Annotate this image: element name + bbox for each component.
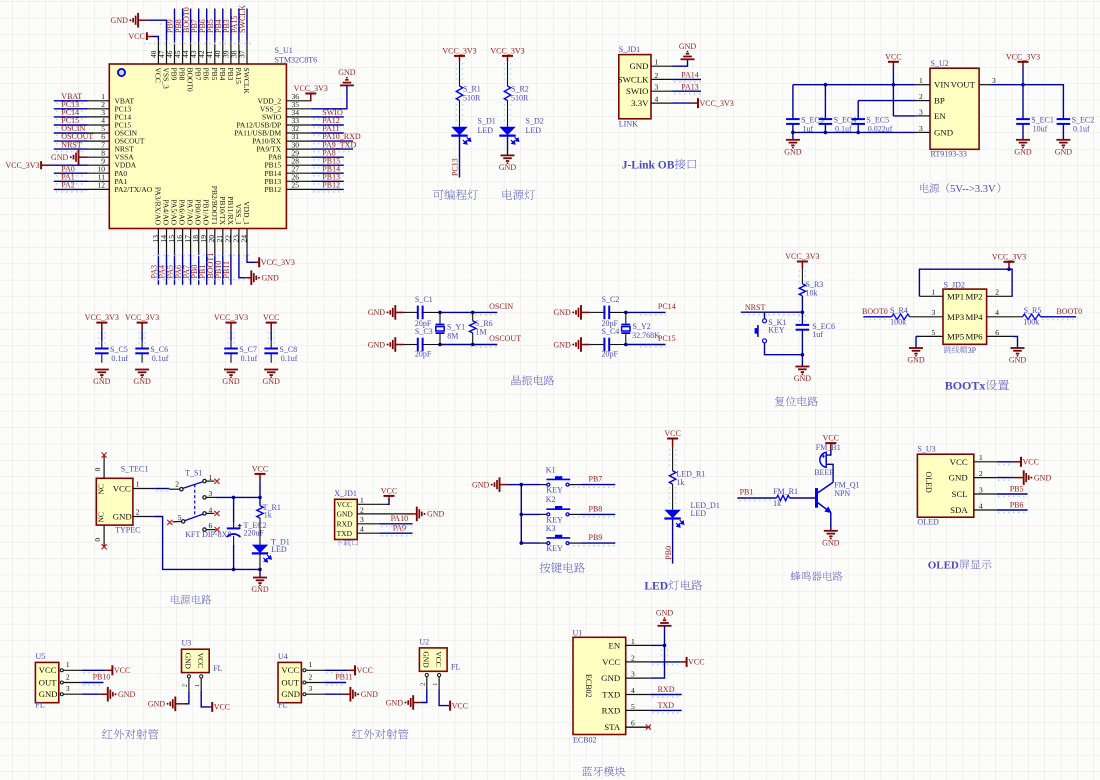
power VCC_3V3 above S_R2 (502, 55, 513, 57)
mcu pin 37 (246, 41, 248, 64)
svg-text:NC: NC (97, 512, 106, 522)
button K1 KEY (540, 484, 546, 486)
label 跳线帽3P (944, 346, 951, 353)
ir emitter U3 body (182, 649, 210, 672)
wire emitter to gnd (830, 513, 832, 531)
svg-text:GND: GND (133, 377, 151, 386)
svg-text:S_R4: S_R4 (890, 306, 908, 315)
section title 电源电路 (171, 595, 180, 604)
svg-text:VCC: VCC (381, 486, 397, 495)
svg-text:PA15: PA15 (234, 68, 243, 85)
wire S_D2 to gnd (507, 136, 509, 155)
section title 晶振电路 (512, 375, 521, 385)
svg-text:0.1uf: 0.1uf (1073, 125, 1090, 134)
svg-text:MP6: MP6 (965, 331, 983, 341)
power VCC above T_R1 (255, 473, 266, 475)
svg-text:S_JD1: S_JD1 (619, 45, 640, 54)
wire U2 gnd pin (421, 690, 427, 703)
net label PA12 (312, 124, 344, 126)
svg-text:3: 3 (309, 684, 313, 693)
svg-text:PB4: PB4 (218, 68, 227, 81)
mcu pin 22 (230, 229, 232, 254)
LED T_D1 (252, 545, 268, 553)
resistor S_R5 100k (1023, 314, 1041, 320)
svg-text:510R: 510R (511, 94, 529, 103)
mcu pin 18 (198, 229, 200, 254)
svg-text:PB11/RX: PB11/RX (226, 196, 235, 225)
wire K2 to PB8 (581, 513, 616, 515)
svg-text:0: 0 (93, 467, 102, 471)
svg-text:2: 2 (420, 683, 427, 686)
svg-text:PA14: PA14 (681, 71, 699, 80)
mcu pin 13 (157, 229, 159, 254)
svg-text:FL: FL (35, 700, 44, 709)
svg-text:OLED: OLED (928, 560, 959, 572)
svg-text:S_D1: S_D1 (478, 117, 496, 126)
resistor S_R4 100k (892, 314, 910, 320)
wire key bus vertical (520, 485, 522, 543)
svg-text:NRST: NRST (61, 140, 82, 149)
mcu pin 24 (246, 229, 248, 254)
wire S_R1 to S_D1 (459, 101, 461, 127)
mcu pin 44 (190, 41, 192, 64)
svg-text:PA2/TX/AO: PA2/TX/AO (115, 185, 153, 194)
svg-text:SWIO: SWIO (626, 86, 648, 96)
power VCC at U2 (449, 701, 451, 711)
svg-text:VCC: VCC (252, 464, 268, 473)
svg-text:100k: 100k (890, 318, 906, 327)
net label PA14 (672, 78, 701, 80)
svg-text:TXD: TXD (337, 529, 353, 538)
svg-text:2: 2 (175, 480, 179, 489)
power VCC at U4 pin1 (354, 665, 356, 675)
svg-text:3: 3 (631, 670, 635, 679)
svg-text:VCC: VCC (114, 666, 130, 675)
wire S_C5 top (101, 330, 103, 341)
wire S_C6 top (141, 330, 143, 341)
capacitor S_C4 20pF (603, 338, 605, 352)
svg-text:PB12: PB12 (265, 185, 282, 194)
net label PB1 (737, 497, 776, 499)
svg-text:100k: 100k (1023, 318, 1039, 327)
wire U3 gnd pin (183, 691, 189, 704)
svg-text:3: 3 (919, 124, 923, 133)
svg-text:PB8: PB8 (589, 504, 603, 513)
svg-text:ECB02: ECB02 (573, 735, 597, 744)
wire cap EC4 column (824, 85, 826, 119)
net label BOOT0 (190, 9, 192, 41)
wire R4 to pin3 (910, 316, 920, 318)
svg-text:VCC: VCC (113, 484, 131, 494)
svg-text:RXD: RXD (337, 520, 353, 529)
svg-text:2: 2 (136, 508, 140, 517)
svg-text:4: 4 (995, 308, 999, 317)
net label PC14 (54, 116, 88, 118)
power VCC_3V3 above vout rail (1018, 61, 1029, 63)
resistor LED_R1 1k (669, 471, 675, 484)
svg-text:VCC_3V3: VCC_3V3 (785, 252, 819, 261)
mcu pin 26 (286, 180, 311, 182)
svg-text:2: 2 (309, 672, 313, 681)
svg-text:PB12: PB12 (322, 181, 340, 190)
svg-text:U1: U1 (573, 628, 583, 637)
svg-text:RT9193-33: RT9193-33 (931, 149, 967, 158)
resistor S_R2 510R (504, 86, 510, 101)
U3 pin 2 gnd (187, 675, 190, 678)
svg-text:PB10: PB10 (93, 673, 111, 682)
mcu pin 31 (286, 140, 311, 142)
net label PB9 (174, 9, 176, 41)
net label PB13 (312, 180, 344, 182)
svg-text:6: 6 (995, 328, 999, 337)
gnd symbol at xjd1 pin2 (407, 513, 415, 515)
wire gnd bus to EN and GND pins (650, 626, 664, 678)
net label PA13 (672, 90, 701, 92)
net label PB11 (230, 254, 232, 285)
svg-text:PB10/TX: PB10/TX (218, 196, 227, 225)
svg-text:GND: GND (222, 377, 240, 386)
svg-text:S_C7: S_C7 (239, 345, 257, 354)
svg-text:S_R5: S_R5 (1024, 306, 1042, 315)
svg-text:OSCOUT: OSCOUT (489, 334, 521, 343)
svg-text:S_U1: S_U1 (275, 46, 293, 55)
wire to S_C2 (590, 311, 605, 313)
net label RXD (650, 694, 681, 696)
typec top pin 0 (103, 456, 105, 479)
svg-text:SWCLK: SWCLK (242, 68, 251, 95)
svg-text:3: 3 (66, 684, 70, 693)
svg-text:BEEP: BEEP (814, 468, 834, 477)
net label PB10 (222, 254, 224, 285)
resistor S_R1 510R (456, 86, 462, 101)
net label PA6 (182, 254, 184, 285)
svg-text:GND: GND (262, 274, 280, 283)
svg-text:3.3V: 3.3V (631, 98, 649, 108)
svg-text:S_C6: S_C6 (150, 345, 168, 354)
gnd symbol below FM_Q1 (824, 530, 838, 532)
net label BOOT0 right (1041, 316, 1076, 318)
svg-text:VCC: VCC (823, 434, 839, 443)
svg-text:VCC: VCC (128, 32, 144, 41)
svg-text:6: 6 (209, 521, 213, 530)
gnd symbol below pin6 (1011, 347, 1025, 349)
wire U5 pin1 to vcc (82, 669, 106, 671)
svg-text:S_C5: S_C5 (110, 345, 128, 354)
wire cap EC3 column (792, 85, 794, 119)
net label PA11 (312, 132, 344, 134)
wire bus to K3 (521, 542, 540, 544)
svg-text:3: 3 (932, 308, 936, 317)
net label PA0 (54, 172, 88, 174)
wire T_R1 to T_D1 (259, 518, 261, 545)
capacitor S_EC5 0.022uf (851, 118, 865, 120)
LED LED_D1 (664, 510, 680, 518)
wire contact 3 to led column (206, 496, 215, 498)
svg-text:U4: U4 (278, 652, 288, 661)
wire oled pin2 to gnd (997, 477, 1014, 479)
svg-text:6: 6 (631, 719, 635, 728)
wire to S_C3 (404, 344, 418, 346)
net label TXD (650, 709, 681, 711)
ir module U4 body (278, 662, 301, 702)
jumper pin 3 (919, 316, 943, 318)
svg-text:TYPEC: TYPEC (115, 525, 140, 534)
crystal S_Y1 8M (439, 312, 441, 324)
mcu pin 41 (214, 41, 216, 64)
wire gnd rail below caps (793, 124, 916, 132)
mcu pin 5 (88, 132, 110, 134)
mcu U1 STM32C8T6 body (109, 64, 286, 229)
svg-text:SWCLK: SWCLK (618, 74, 649, 84)
svg-text:25: 25 (292, 181, 300, 190)
mcu pin 1 (88, 100, 110, 102)
svg-text:3: 3 (992, 76, 996, 85)
svg-text:PB8: PB8 (178, 68, 187, 81)
power VCC above regulator (888, 61, 899, 63)
svg-text:PB6: PB6 (1010, 500, 1024, 509)
svg-text:GND: GND (934, 127, 953, 137)
svg-text:PB9: PB9 (589, 533, 603, 542)
svg-text:NC: NC (97, 484, 106, 494)
mcu pin 48 (157, 41, 159, 64)
svg-text:MP3: MP3 (947, 312, 965, 322)
gnd symbol below pin5 (909, 347, 923, 349)
net label BOOT1 (214, 254, 216, 285)
wire oled pin1 to vcc (997, 461, 1014, 463)
gnd symbol below EC3 (786, 139, 800, 141)
wire VCC pin to vcc (650, 661, 680, 663)
wire jlink pin1 to gnd (672, 59, 687, 66)
resistor S_R6 1M (472, 312, 474, 321)
svg-text:K3: K3 (546, 524, 556, 533)
svg-text:VCC: VCC (1023, 458, 1039, 467)
svg-text:LED: LED (691, 509, 707, 518)
mcu pin 17 (190, 229, 192, 254)
svg-text:KFT DIP-8X8: KFT DIP-8X8 (185, 530, 231, 539)
mcu pin 28 (286, 164, 311, 166)
power VCC_3V3 above S_C6 (137, 322, 148, 324)
net label PA9_TXD (312, 148, 354, 150)
net label PB6 (206, 9, 208, 41)
wire S_R1 top (459, 61, 461, 86)
svg-text:NPN: NPN (834, 489, 850, 498)
power VCC_3V3 at VDD_2 pin 36 (305, 93, 316, 95)
svg-text:VCC: VCC (602, 657, 620, 667)
svg-text:VCC: VCC (688, 658, 704, 667)
wire S_C6 bottom (141, 353, 143, 362)
mcu pin 8 (88, 156, 110, 158)
svg-text:PA3/RX/AO: PA3/RX/AO (153, 187, 162, 226)
wire VOUT rail (990, 85, 1063, 119)
svg-text:PB11: PB11 (222, 261, 231, 279)
gnd symbol below S_C8 (264, 369, 278, 371)
net label PB4 (222, 9, 224, 41)
svg-text:0: 0 (93, 538, 102, 542)
svg-text:32.768K: 32.768K (632, 331, 660, 340)
jumper pin 2 (987, 295, 1013, 297)
svg-text:20pF: 20pF (415, 349, 432, 358)
svg-text:2: 2 (631, 653, 635, 662)
gnd symbol below S_C6 (135, 369, 149, 371)
svg-text:10k: 10k (806, 289, 818, 298)
U2 pin 1 vcc (438, 674, 441, 677)
svg-text:BOOTx: BOOTx (945, 379, 986, 393)
svg-text:GND: GND (361, 690, 379, 699)
mcu pin 30 (286, 148, 311, 150)
connector X_JD1 body (335, 499, 358, 539)
net label PB3 (230, 9, 232, 41)
power VCC_3V3 at jlink pin4 (697, 98, 699, 108)
svg-text:GND: GND (337, 510, 354, 519)
svg-text:GND: GND (368, 340, 386, 349)
jumper pin 5 (919, 335, 943, 337)
svg-text:GND: GND (907, 356, 925, 365)
capacitor S_EC1 10uf (1016, 118, 1030, 120)
svg-text:3: 3 (209, 489, 213, 498)
svg-text:VCC_3V3: VCC_3V3 (85, 313, 119, 322)
wire vcc to LED_R1 (672, 447, 674, 471)
svg-text:GND: GND (422, 651, 431, 668)
mcu pin 10 (88, 172, 110, 174)
svg-text:MP5: MP5 (947, 331, 965, 341)
svg-text:GND: GND (368, 308, 386, 317)
net label PB10 (82, 682, 104, 684)
mcu pin 43 (198, 41, 200, 64)
svg-text:SDA: SDA (950, 505, 968, 515)
svg-text:VCC: VCC (196, 653, 205, 668)
LED S_D1 (451, 127, 467, 135)
svg-text:GND: GND (111, 16, 129, 25)
svg-text:PB1: PB1 (740, 487, 754, 496)
svg-text:24: 24 (239, 235, 248, 243)
wire vcc_3v3 stem (1022, 68, 1024, 119)
gnd symbol at VSS_2 pin 35 (340, 84, 354, 86)
svg-text:5V-->3.3V: 5V-->3.3V (950, 184, 996, 195)
gnd symbol below power circuit (253, 577, 267, 579)
svg-text:1: 1 (66, 660, 70, 669)
wire S_C3 to OSCOUT (423, 344, 440, 346)
svg-text:VCC_3V3: VCC_3V3 (992, 252, 1026, 261)
svg-text:S_U2: S_U2 (931, 59, 949, 68)
mcu pin 21 (222, 229, 224, 254)
svg-text:OUT: OUT (281, 677, 299, 687)
typec bottom pin 0 (103, 525, 105, 546)
net label PB0 (198, 254, 200, 285)
power VCC above S_C8 (266, 322, 277, 324)
svg-text:20pF: 20pF (602, 349, 619, 358)
svg-text:S_R2: S_R2 (511, 85, 529, 94)
power VCC at bluetooth (686, 657, 688, 667)
wire VSS_2 to gnd (312, 85, 347, 108)
svg-text:K2: K2 (546, 495, 556, 504)
wire buzzer bottom terminal to collector (826, 464, 833, 470)
gnd symbol above jlink (681, 58, 695, 60)
svg-text:1: 1 (932, 288, 936, 297)
net label PA5 (174, 254, 176, 285)
svg-text:PB3: PB3 (226, 68, 235, 81)
wire U3 vcc pin (201, 691, 211, 707)
net label PA10 (380, 523, 413, 525)
svg-text:VCC_3V3: VCC_3V3 (214, 313, 248, 322)
svg-text:SWCLK: SWCLK (238, 5, 247, 33)
svg-text:4: 4 (360, 525, 364, 534)
svg-text:EN: EN (608, 640, 620, 650)
svg-text:U2: U2 (419, 637, 429, 646)
wire S_R2 top (507, 61, 509, 86)
net label PB8 (182, 9, 184, 41)
wire U4 pin3 to gnd (324, 693, 343, 695)
svg-text:VCC: VCC (434, 651, 443, 666)
svg-text:SCL: SCL (952, 489, 968, 499)
net label PB1 (206, 254, 208, 285)
mcu pin 4 (88, 124, 110, 126)
svg-text:5: 5 (631, 702, 635, 711)
section title 电源灯 (503, 189, 513, 199)
svg-text:PA5/AO: PA5/AO (170, 199, 179, 225)
svg-text:T_S1: T_S1 (185, 468, 202, 477)
net label OSCIN (54, 132, 88, 134)
wire vcc to VIN rail (892, 68, 894, 85)
svg-text:PA6/AO: PA6/AO (178, 199, 187, 225)
svg-text:PC13: PC13 (451, 158, 460, 176)
net label PB5 (997, 493, 1028, 495)
svg-text:PC15: PC15 (658, 334, 676, 343)
wire typec vcc to switch (154, 488, 169, 490)
gnd symbol above bluetooth (658, 625, 672, 627)
svg-text:VCC_3V3: VCC_3V3 (5, 161, 39, 170)
svg-text:PB0: PB0 (664, 546, 673, 560)
svg-text:FL: FL (451, 663, 460, 672)
svg-text:U3: U3 (182, 639, 192, 648)
svg-text:GND: GND (679, 42, 697, 51)
svg-text:PB9: PB9 (170, 68, 179, 81)
typec pin 2 GND (133, 516, 154, 518)
net label PA7 (190, 254, 192, 285)
wire cap EC6 column (801, 312, 803, 325)
svg-text:0.1uf: 0.1uf (241, 354, 258, 363)
svg-text:4: 4 (979, 501, 983, 510)
svg-text:S_EC1: S_EC1 (1031, 116, 1054, 125)
wire EC3 to gnd (792, 132, 794, 139)
svg-text:BOOT0: BOOT0 (862, 307, 888, 316)
svg-text:X_JD1: X_JD1 (334, 489, 357, 498)
net label PB15 (312, 164, 344, 166)
svg-text:STA: STA (604, 722, 621, 732)
power VCC_3V3 above S_R3 (797, 261, 808, 263)
resistor FM_R1 1k (777, 495, 790, 501)
button K3 KEY (540, 542, 546, 544)
wire VDDA (51, 164, 88, 166)
mcu pin 19 (206, 229, 208, 254)
wire EC6 to gnd (801, 330, 803, 355)
power VCC above xjd1 (384, 495, 395, 497)
svg-text:1: 1 (979, 453, 983, 462)
bluetooth U1 ECB02 body (573, 637, 626, 734)
net label PA9 (380, 532, 413, 534)
svg-text:VIN: VIN (934, 80, 950, 90)
wire to S_C4 (590, 344, 605, 346)
svg-text:1: 1 (360, 496, 364, 505)
svg-text:1: 1 (194, 684, 201, 687)
svg-text:10uf: 10uf (1033, 125, 1048, 134)
ir emitter U2 body (419, 648, 447, 671)
svg-text:PA7/AO: PA7/AO (186, 199, 195, 225)
svg-text:2: 2 (66, 672, 70, 681)
svg-text:GND: GND (281, 689, 300, 699)
wire S_R2 to S_D2 (507, 101, 509, 127)
power VCC above buzzer (825, 442, 836, 444)
svg-text:1: 1 (655, 58, 659, 67)
